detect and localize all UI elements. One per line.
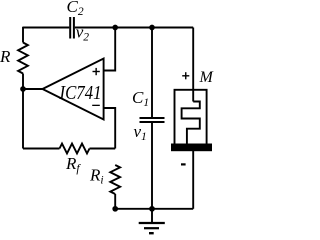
- svg-text:C2: C2: [67, 0, 84, 18]
- svg-text:R: R: [0, 47, 11, 66]
- svg-text:C1: C1: [132, 88, 149, 109]
- svg-text:v2: v2: [76, 23, 90, 44]
- svg-text:IC741: IC741: [59, 82, 102, 104]
- svg-text:Ri: Ri: [89, 166, 104, 187]
- svg-text:Rf: Rf: [65, 154, 81, 175]
- svg-text:M: M: [199, 69, 215, 86]
- svg-text:v1: v1: [134, 122, 147, 143]
